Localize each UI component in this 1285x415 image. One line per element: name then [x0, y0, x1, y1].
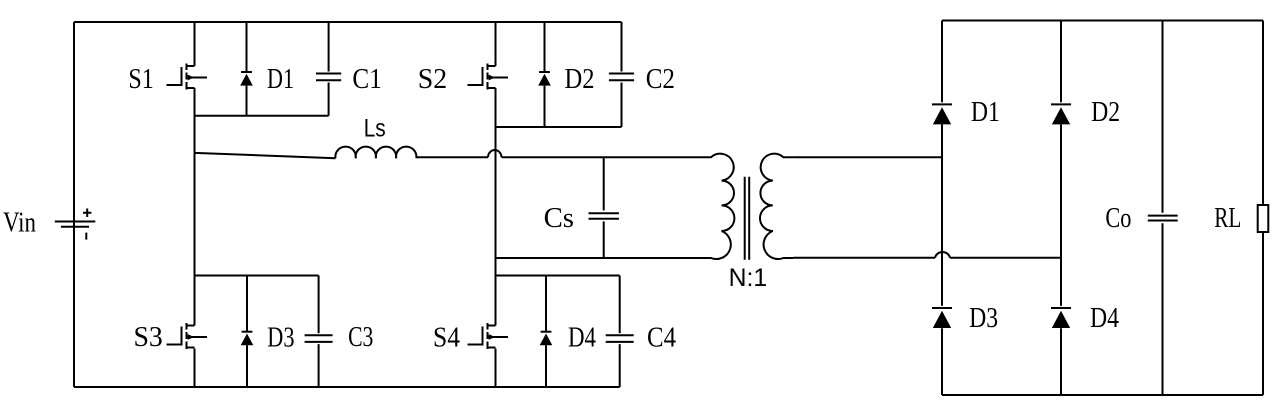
svg-text:D1: D1	[971, 97, 1000, 128]
svg-text:D2: D2	[1091, 97, 1120, 128]
svg-text:RL: RL	[1214, 203, 1241, 234]
svg-text:Vin: Vin	[3, 208, 36, 239]
svg-text:D4: D4	[568, 323, 596, 354]
svg-text:S2: S2	[418, 64, 447, 95]
svg-text:C3: C3	[348, 322, 373, 353]
svg-text:Ls: Ls	[364, 114, 386, 142]
svg-text:D3: D3	[267, 323, 294, 354]
svg-text:Co: Co	[1105, 203, 1131, 234]
svg-text:S4: S4	[433, 323, 460, 354]
svg-text:D3: D3	[969, 303, 998, 334]
svg-text:C1: C1	[352, 64, 381, 95]
svg-text:D4: D4	[1090, 303, 1119, 334]
svg-text:C4: C4	[647, 323, 676, 354]
svg-text:N:1: N:1	[729, 264, 768, 292]
svg-text:C2: C2	[646, 64, 675, 95]
svg-text:S1: S1	[128, 64, 153, 95]
svg-text:S3: S3	[134, 322, 163, 353]
svg-text:Cs: Cs	[544, 203, 574, 234]
svg-text:D2: D2	[565, 64, 595, 95]
svg-text:D1: D1	[267, 64, 294, 95]
